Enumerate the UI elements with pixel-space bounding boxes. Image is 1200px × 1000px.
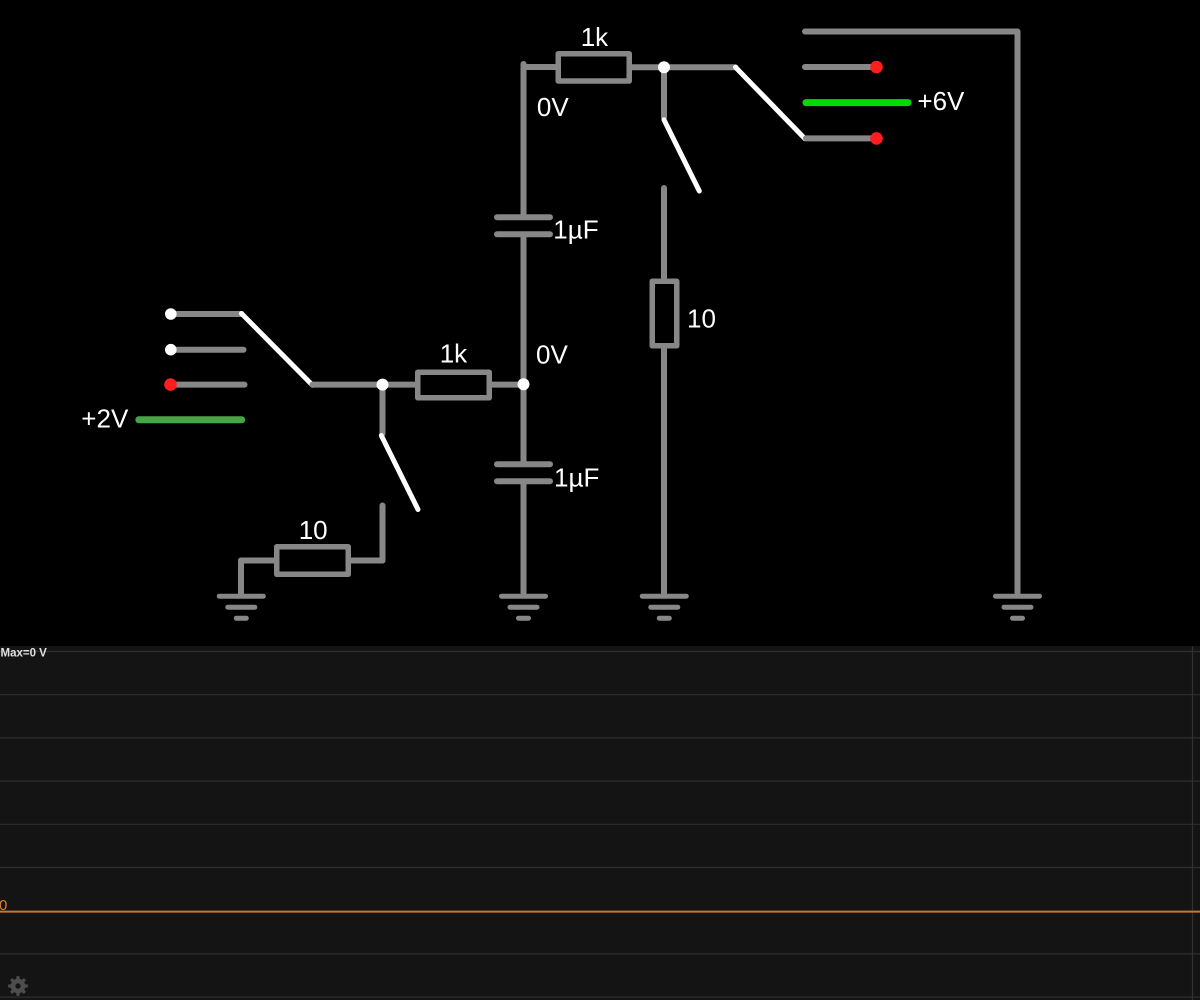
ground G4 (right): [996, 596, 1040, 618]
resistor R3 10 (vertical box style): [652, 281, 677, 346]
node C junction dot (top right of R1): [658, 61, 670, 73]
capacitor C1 1uF bottom plate: [497, 231, 550, 237]
wire middle branch (C2 down to ground): [521, 484, 527, 593]
scope grid line 8: [0, 996, 1200, 998]
switch S1 throw 2 wire: [171, 347, 244, 353]
switch S4 throw 2 unconnected post (red): [870, 61, 883, 74]
node B junction dot (left): [377, 379, 389, 391]
svg-text:10: 10: [299, 515, 328, 545]
scope grid line 7: [0, 953, 1200, 955]
switch S4 throw 2 wire: [805, 64, 871, 70]
wire middle branch (node A down to capacitor C2): [521, 387, 527, 461]
node A junction dot (middle): [518, 378, 530, 390]
svg-text:0V: 0V: [537, 92, 569, 122]
capacitor C2 1uF bottom plate: [497, 478, 550, 484]
switch S1 throw 2 post: [165, 344, 177, 356]
rail +2V voltage source: [139, 416, 242, 423]
wire middle branch upper (corner down to capacitor C1): [521, 64, 527, 215]
ground G3: [642, 596, 686, 618]
switch S3 lever (open): [664, 120, 699, 191]
switch S1 throw 3 wire: [171, 382, 245, 388]
scope zero line: [0, 911, 1200, 913]
svg-text:1k: 1k: [440, 339, 468, 369]
scope grid line 6: [0, 867, 1200, 869]
wire R4 left lead: [241, 558, 276, 564]
switch S1 throw 1 wire: [171, 311, 242, 317]
scope background: [0, 646, 1200, 1000]
svg-text:+6V: +6V: [917, 86, 965, 116]
capacitor C2 1uF top plate: [497, 461, 550, 467]
scope grid line 5: [0, 823, 1200, 825]
switch S4 throw 1 wire (top, to right rail wire): [805, 32, 1018, 594]
resistor R2 right lead wire: [490, 382, 524, 388]
svg-text:1µF: 1µF: [554, 463, 599, 493]
resistor R4 10 (box style): [277, 547, 349, 575]
switch S4 throw 4 wire: [806, 135, 871, 141]
scope grid line 3: [0, 737, 1200, 739]
wire middle branch (C1 to node A): [521, 237, 527, 381]
wire R1 right lead to switch pole: [632, 64, 736, 70]
switch S1 throw 1 post: [165, 308, 177, 320]
switch S2 lower stub wire: [380, 506, 386, 561]
ground G2 (middle): [502, 596, 546, 618]
switch S3 lower stub wire: [661, 188, 667, 279]
scope grid line 1: [0, 651, 1200, 653]
switch S2 upper stub wire: [380, 387, 386, 434]
svg-text:10: 10: [687, 304, 716, 334]
resistor R1 1k (top, box style): [558, 54, 629, 81]
resistor R2 1k left lead wire: [383, 382, 418, 388]
wire R3 bottom lead to ground G3: [661, 348, 667, 593]
wire R4 lead corner down to ground G1: [238, 561, 244, 594]
svg-text:1µF: 1µF: [553, 215, 598, 245]
scope grid line 2: [0, 694, 1200, 696]
switch S1 lever: [242, 314, 313, 386]
scope vertical grid line: [1192, 646, 1194, 1000]
svg-text:1k: 1k: [581, 22, 609, 52]
wire from resistor R1 left to middle branch corner: [524, 64, 557, 70]
capacitor C1 1uF top plate: [497, 214, 550, 220]
switch S3 upper stub wire: [661, 70, 667, 118]
switch S4 throw 4 unconnected post (red): [870, 132, 883, 145]
switch S1 pole wire to node B: [313, 382, 383, 388]
resistor R2 1k (box style): [418, 372, 490, 398]
scope grid line 4: [0, 780, 1200, 782]
svg-text:0V: 0V: [536, 339, 568, 369]
switch S2 lever (open): [381, 436, 418, 510]
scope settings gear icon: [8, 976, 28, 996]
svg-text:0: 0: [0, 897, 7, 914]
rail +6V voltage source: [806, 99, 908, 106]
switch S1 throw 3 unconnected post (red): [164, 378, 177, 391]
wire S2 bottom to resistor R4: [350, 558, 383, 564]
svg-text:+2V: +2V: [81, 404, 129, 434]
ground G1 (left): [219, 596, 263, 618]
switch S4 lever: [736, 67, 806, 139]
svg-text:Max=0 V: Max=0 V: [1, 648, 48, 660]
